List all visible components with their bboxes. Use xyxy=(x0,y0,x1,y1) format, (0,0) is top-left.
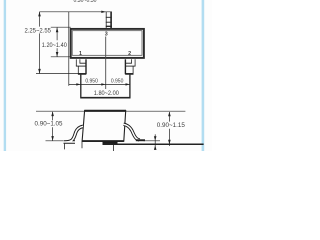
svg-text:0.30~0.50: 0.30~0.50 xyxy=(74,0,97,4)
pin 2 center extension line xyxy=(129,75,131,99)
svg-text:3: 3 xyxy=(105,31,108,37)
pin3 foot extension vertical xyxy=(113,143,115,151)
svg-text:2.25~2.55: 2.25~2.55 xyxy=(24,27,51,34)
bottom extension for 2.25~2.55 xyxy=(36,73,80,75)
left foot drop extension line xyxy=(64,144,66,150)
seating plane long line xyxy=(103,143,204,145)
pin 2 tab (bottom-right, ladder) xyxy=(125,59,136,74)
row A dimension line (0.950 / 0.950) xyxy=(69,83,130,85)
table border right (light blue) xyxy=(202,0,205,151)
svg-text:1.20~1.40: 1.20~1.40 xyxy=(42,42,68,49)
1.20~1.40 (with white bg) xyxy=(42,42,68,48)
lead-span connector line below 1.80~2.00 xyxy=(81,97,131,99)
pin3 foot (black bar, behind) xyxy=(103,141,118,144)
page background xyxy=(0,0,212,151)
side top extension lines xyxy=(36,110,85,112)
left lead (gull wing) xyxy=(64,126,84,142)
right lead (gull wing) xyxy=(124,124,140,140)
body inner thin outline xyxy=(72,31,142,56)
dim 0.90~1.15 (right) xyxy=(168,112,170,122)
foot-bottom extension line (right) xyxy=(144,140,161,142)
dim 0.90~1.05 (left) xyxy=(52,112,54,120)
dim 2.25~2.55 vertical line xyxy=(39,12,41,27)
right foot solid xyxy=(136,139,145,141)
svg-text:0.90~1.15: 0.90~1.15 xyxy=(157,122,186,129)
svg-text:2: 2 xyxy=(128,51,131,57)
table border left (light blue) xyxy=(4,0,6,151)
dim 1.20~1.40 vertical line + extensions xyxy=(51,26,71,28)
pin 1 center extension line xyxy=(80,75,82,99)
svg-text:1: 1 xyxy=(79,51,82,57)
svg-text:0.950: 0.950 xyxy=(111,79,124,85)
top dimension line y=12.2 (0.30~0.50) xyxy=(40,11,112,13)
body (trapezoid) xyxy=(82,111,126,142)
svg-text:0.90~1.05: 0.90~1.05 xyxy=(35,121,64,128)
pin 3 tab (top, ladder) xyxy=(106,12,112,29)
pin 1 tab (bottom-left, ladder) xyxy=(76,59,87,74)
standoff dim ticks xyxy=(154,134,156,149)
body corner drop extension line xyxy=(81,142,83,149)
body outline (thick) xyxy=(71,29,144,58)
arrow at pin3 tab xyxy=(101,11,106,13)
svg-text:0.950: 0.950 xyxy=(85,79,98,85)
package center line xyxy=(105,37,107,90)
svg-text:1.80~2.00: 1.80~2.00 xyxy=(94,90,120,97)
long left extension line E1 xyxy=(68,12,70,86)
